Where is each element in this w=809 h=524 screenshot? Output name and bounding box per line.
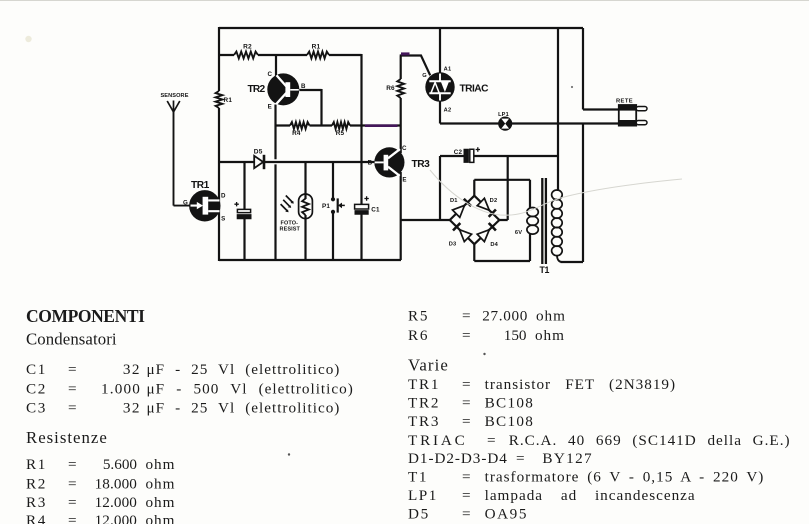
svg-text:C3: C3: [26, 400, 47, 417]
antenna sensore wire: [174, 112, 191, 206]
svg-text:32: 32: [123, 400, 141, 417]
diode D1: [453, 199, 472, 218]
svg-text:D: D: [221, 192, 226, 199]
svg-text:=: =: [462, 506, 472, 523]
svg-text:R1: R1: [312, 44, 321, 51]
wire purple mark on gate bend: [401, 52, 410, 55]
mains plug RETE: [619, 105, 647, 126]
wire TR2 emitter: [274, 105, 276, 262]
svg-text:R2: R2: [26, 475, 47, 492]
svg-text:=: =: [68, 400, 78, 417]
svg-text:Varie: Varie: [408, 356, 449, 375]
svg-text:D1: D1: [450, 198, 458, 204]
wire top supply rail: [219, 27, 583, 29]
svg-text:R1: R1: [224, 97, 233, 104]
wire bridge top to secondary top: [474, 180, 530, 208]
svg-text:P1: P1: [322, 203, 330, 210]
fold crease (scan artifact): [430, 170, 682, 215]
svg-text:18.000: 18.000: [95, 475, 138, 492]
svg-text:TR1: TR1: [408, 376, 440, 393]
svg-text:A2: A2: [444, 108, 452, 114]
svg-text:E: E: [402, 176, 406, 183]
resistor R6: [397, 79, 404, 98]
svg-text:R5: R5: [336, 130, 345, 137]
wire left rail lower: [218, 108, 220, 261]
svg-text:=: =: [462, 469, 472, 486]
svg-text:SENSORE: SENSORE: [160, 93, 188, 99]
svg-text:lampada ad incandescenza: lampada ad incandescenza: [485, 487, 696, 504]
svg-text:=: =: [68, 475, 78, 492]
transistor TR1 (FET): [189, 190, 220, 221]
svg-text:D2: D2: [490, 198, 498, 204]
capacitor C2: [464, 147, 480, 162]
svg-text:μF - 25 Vl (elettrolitico): μF - 25 Vl (elettrolitico): [147, 400, 341, 417]
wire bridge right corner to C2 row: [499, 156, 507, 220]
svg-text:TR1: TR1: [191, 180, 210, 191]
svg-text:transistor FET (2N3819): transistor FET (2N3819): [485, 376, 676, 393]
svg-text:ohm: ohm: [146, 475, 176, 492]
bridge rectifier diamond: [450, 196, 500, 245]
transistor TR3: [374, 147, 404, 177]
wire left rail upper: [218, 27, 220, 91]
svg-text:=: =: [68, 380, 78, 397]
diode D2: [477, 198, 496, 217]
transformer T1 core: [542, 178, 546, 264]
resistor R1: [216, 91, 223, 108]
wire R6 top to TRIAC gate: [400, 56, 431, 80]
wire TRIAC A2 to lamp row: [439, 102, 441, 124]
svg-text:S: S: [221, 216, 225, 223]
svg-text:OA95: OA95: [485, 506, 528, 523]
svg-text:=: =: [462, 395, 472, 412]
resistor R1 (top): [307, 52, 329, 59]
triac: [425, 72, 454, 101]
svg-text:LP1: LP1: [408, 487, 438, 504]
svg-text:C: C: [267, 71, 272, 78]
wire bottom rail: [219, 259, 401, 261]
resistor R4: [290, 122, 310, 129]
svg-text:12.000: 12.000: [95, 494, 138, 511]
capacitor C3: [234, 202, 251, 219]
svg-text:trasformatore (6 V - 0,15 A -: trasformatore (6 V - 0,15 A - 220 V): [485, 469, 765, 486]
svg-text:G: G: [183, 199, 188, 206]
wire bridge bottom / secondary bottom: [474, 234, 530, 261]
svg-text:TR3: TR3: [412, 159, 431, 170]
svg-text:BC108: BC108: [485, 395, 535, 412]
wire C2 row: [440, 156, 558, 220]
wire R4-R5 row: [276, 124, 401, 126]
svg-text:=: =: [516, 450, 526, 467]
svg-text:=: =: [68, 361, 78, 378]
wire R2-R1 row: [219, 54, 362, 56]
svg-text:TR2: TR2: [408, 395, 440, 412]
svg-text:D1-D2-D3-D4: D1-D2-D3-D4: [408, 450, 508, 467]
resistor R2: [234, 52, 258, 59]
svg-text:TRIAC: TRIAC: [460, 83, 490, 94]
svg-text:R6: R6: [386, 85, 395, 92]
wire C3 branch: [243, 162, 245, 261]
svg-text:D4: D4: [490, 242, 498, 248]
svg-text:R4: R4: [292, 130, 301, 137]
svg-text:T1: T1: [408, 469, 428, 486]
svg-text:12.000: 12.000: [95, 512, 138, 524]
svg-text:Resistenze: Resistenze: [26, 428, 108, 447]
svg-text:R4: R4: [26, 512, 47, 524]
svg-text:=: =: [462, 376, 472, 393]
svg-text:R6: R6: [408, 327, 429, 344]
svg-text:27.000: 27.000: [482, 308, 528, 325]
transformer T1 secondary winding: [527, 208, 538, 235]
svg-text:Condensatori: Condensatori: [26, 330, 117, 349]
svg-text:COMPONENTI: COMPONENTI: [26, 306, 145, 326]
svg-text:ohm: ohm: [146, 512, 176, 524]
svg-text:=: =: [462, 487, 472, 504]
svg-text:=: =: [68, 512, 78, 524]
svg-text:=: =: [462, 308, 472, 325]
svg-text:C: C: [402, 145, 407, 152]
svg-text:R1: R1: [26, 456, 47, 473]
svg-text:ohm: ohm: [535, 327, 565, 344]
wire right rail to plug top: [583, 28, 619, 110]
photoresistor FOTORESIST: [281, 194, 313, 219]
svg-text:μF - 25 Vl (elettrolitico): μF - 25 Vl (elettrolitico): [147, 361, 341, 378]
svg-text:R3: R3: [26, 494, 47, 511]
svg-text:G: G: [422, 73, 427, 79]
svg-text:C2: C2: [454, 149, 463, 156]
svg-text:RETE: RETE: [616, 98, 633, 104]
transformer T1 primary winding: [552, 190, 563, 256]
lamp LP1: [499, 117, 512, 130]
wire TR3 collector / R6 branch: [400, 98, 402, 153]
svg-text:=: =: [68, 456, 78, 473]
svg-text:=: =: [68, 494, 78, 511]
svg-text:ohm: ohm: [146, 494, 176, 511]
svg-text:B: B: [301, 83, 306, 90]
svg-text:R5: R5: [408, 308, 429, 325]
diode D5: [254, 155, 264, 169]
wire node purple overmark (R5 to TR3C): [365, 124, 398, 127]
svg-text:C1: C1: [371, 206, 380, 213]
wire TRIAC A1: [439, 28, 441, 73]
wire D5 row (to TR3 base): [219, 161, 375, 163]
svg-text:LP1: LP1: [498, 112, 509, 118]
svg-text:TR2: TR2: [248, 84, 266, 95]
wire photoresistor branch: [304, 162, 306, 261]
svg-text:=: =: [462, 413, 472, 430]
svg-text:6V: 6V: [515, 230, 522, 236]
wire TR3 emitter down: [400, 172, 402, 260]
svg-text:32: 32: [123, 361, 141, 378]
svg-text:E: E: [268, 104, 272, 111]
wire lamp LP1 row: [440, 122, 619, 124]
svg-text:TR3: TR3: [408, 413, 440, 430]
resistor R5: [332, 122, 350, 129]
svg-text:T1: T1: [540, 265, 550, 275]
svg-text:μF - 500 Vl (elettrolitico): μF - 500 Vl (elettrolitico): [147, 380, 354, 397]
svg-text:ohm: ohm: [536, 308, 566, 325]
svg-text:C2: C2: [26, 380, 47, 397]
transistor TR2: [267, 73, 299, 105]
svg-text:ohm: ohm: [146, 456, 176, 473]
capacitor C1: [355, 196, 369, 214]
svg-text:150: 150: [504, 327, 527, 344]
svg-text:D3: D3: [449, 242, 457, 248]
svg-text:R.C.A. 40 669 (SC141D della G.: R.C.A. 40 669 (SC141D della G.E.): [509, 432, 791, 449]
svg-text:C1: C1: [26, 361, 47, 378]
potentiometer P1: [332, 162, 334, 261]
svg-text:A1: A1: [444, 66, 452, 72]
svg-text:TRIAC: TRIAC: [408, 432, 468, 449]
diode D3: [453, 223, 472, 242]
wire lamp row to primary bottom: [561, 124, 584, 263]
svg-text:R2: R2: [243, 44, 252, 51]
wire mains branch x558: [557, 28, 559, 191]
svg-text:5.600: 5.600: [103, 456, 138, 473]
svg-text:BC108: BC108: [485, 413, 535, 430]
wire TR3-emitter to bridge (DC minus): [401, 219, 450, 221]
svg-text:1.000: 1.000: [101, 380, 141, 397]
wire TR2 collector: [275, 55, 277, 76]
svg-text:=: =: [487, 432, 497, 449]
svg-text:=: =: [462, 327, 472, 344]
diode D4: [477, 223, 496, 242]
svg-text:BY127: BY127: [542, 450, 593, 467]
svg-text:D5: D5: [408, 506, 430, 523]
wire right-mid rail: [360, 54, 362, 261]
antenna sensore fork: [167, 101, 180, 113]
wire primary bottom curve: [557, 255, 562, 262]
svg-text:RESIST: RESIST: [280, 226, 301, 232]
wire TR2 base: [300, 89, 322, 126]
svg-text:D5: D5: [254, 148, 263, 155]
svg-text:B: B: [368, 159, 373, 166]
